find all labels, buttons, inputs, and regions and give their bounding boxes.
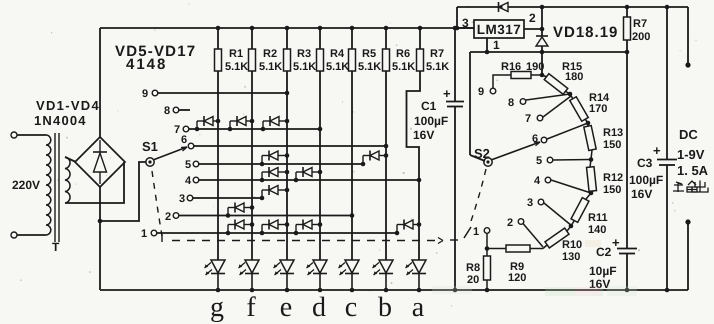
wire VIN corner vertical bbox=[456, 7, 458, 28]
resistor R16 bbox=[511, 72, 531, 79]
svg-text:100µF: 100µF bbox=[629, 173, 663, 187]
switch S2 contact 4 bbox=[545, 177, 551, 183]
diode VD7 (row7-e) bbox=[261, 127, 266, 132]
gang link arrowhead bbox=[438, 238, 443, 244]
LED c bbox=[345, 260, 359, 273]
svg-text:5.1K: 5.1K bbox=[259, 61, 282, 73]
switch S2 contact 9 bbox=[490, 88, 496, 94]
svg-text:7: 7 bbox=[174, 124, 180, 136]
svg-text:8: 8 bbox=[508, 97, 514, 109]
wire ADJ line bbox=[470, 51, 627, 53]
resistor R13 bbox=[584, 125, 596, 150]
svg-text:e: e bbox=[280, 292, 292, 323]
node top rail column 4 bbox=[318, 26, 323, 31]
resistor R10 bbox=[545, 228, 569, 248]
svg-text:5.1K: 5.1K bbox=[326, 61, 349, 73]
wire tap 6 bbox=[547, 123, 588, 139]
svg-text:200: 200 bbox=[632, 31, 650, 43]
svg-text:+: + bbox=[653, 143, 661, 158]
switch S2 wiper arm bbox=[491, 142, 540, 160]
svg-text:S1: S1 bbox=[142, 139, 158, 154]
bridge inner diode lead top bbox=[99, 140, 101, 152]
wire tap 2 bbox=[523, 224, 543, 248]
node R7 top rail junction bbox=[625, 5, 630, 10]
wire LM317 pin3 bbox=[457, 27, 474, 29]
transformer T secondary winding bbox=[65, 157, 70, 203]
svg-text:C3: C3 bbox=[637, 156, 653, 170]
svg-text:3: 3 bbox=[527, 197, 533, 209]
svg-text:4: 4 bbox=[185, 175, 192, 187]
node R8 bottom bbox=[485, 288, 490, 293]
node chain n4 bbox=[589, 191, 594, 196]
node top rail column 1 bbox=[216, 26, 221, 31]
wire row 7 bbox=[189, 128, 320, 130]
wire segment column d bbox=[319, 71, 321, 260]
svg-text:a: a bbox=[412, 292, 425, 323]
wire top rail (VIN) left section y=28 bbox=[100, 27, 474, 29]
wire n5-R10 bbox=[567, 226, 571, 231]
svg-text:c: c bbox=[345, 292, 357, 323]
wire S1 common to bridge bbox=[100, 162, 146, 221]
LED a bbox=[412, 260, 426, 273]
terminal output minus bbox=[685, 219, 690, 224]
wire row 5 bbox=[199, 163, 363, 165]
switch S1 contact 6 bbox=[188, 143, 194, 149]
svg-text:C2: C2 bbox=[596, 245, 612, 259]
wire top rail left of VD18 bbox=[457, 6, 499, 8]
LED d bbox=[313, 260, 327, 273]
node VD19 top rail junction bbox=[540, 5, 545, 10]
svg-text:1. 5A: 1. 5A bbox=[677, 163, 709, 178]
svg-text:g: g bbox=[210, 292, 224, 323]
transformer core line 2 bbox=[58, 133, 60, 242]
resistor R7 bbox=[417, 49, 424, 71]
wire R1 top lead bbox=[217, 28, 219, 49]
svg-text:7: 7 bbox=[525, 113, 531, 125]
switch S2 contact 3 bbox=[538, 199, 544, 205]
wire segment column a jog bbox=[407, 71, 421, 260]
switch S1 contact 2 bbox=[173, 213, 179, 219]
node bridge negative junction bbox=[98, 219, 103, 224]
wire R8 bottom lead bbox=[486, 280, 488, 290]
svg-text:150: 150 bbox=[603, 184, 621, 196]
switch S2 pivot bbox=[484, 158, 492, 166]
svg-text:S2: S2 bbox=[474, 146, 490, 161]
svg-text:5: 5 bbox=[185, 159, 191, 171]
node C3 bottom bbox=[665, 288, 670, 293]
wire S2 pivot diagonal bbox=[470, 155, 485, 161]
node row7-d junction bbox=[318, 127, 323, 132]
switch S1 contact 4 bbox=[193, 177, 199, 183]
wire R7(200) top lead bbox=[626, 7, 628, 17]
capacitor C1 plates bbox=[446, 101, 464, 103]
wire R13-n3 bbox=[591, 150, 592, 160]
svg-text:16V: 16V bbox=[631, 187, 652, 201]
wire C3 top lead bbox=[666, 7, 668, 159]
resistor R14 bbox=[570, 97, 588, 122]
svg-text:5: 5 bbox=[536, 155, 542, 167]
resistor R7 (200) bbox=[624, 17, 631, 40]
switch S2 wiper dashed arc bbox=[470, 169, 486, 224]
node chain n2 bbox=[586, 121, 591, 126]
wire R9 left lead bbox=[487, 248, 506, 250]
svg-text:LM317: LM317 bbox=[477, 22, 522, 37]
wire secondary bottom run bbox=[65, 162, 124, 203]
diode VD8 (row5-e) bbox=[260, 162, 265, 167]
wire tap 4 bbox=[551, 180, 591, 193]
wire VD19 bottom lead bbox=[541, 46, 543, 75]
switch S2 contact 2 bbox=[518, 219, 524, 225]
resistor R11 bbox=[571, 198, 589, 223]
resistor R5 bbox=[349, 49, 356, 71]
svg-text:T: T bbox=[52, 240, 60, 254]
svg-text:4148: 4148 bbox=[126, 56, 167, 73]
svg-text:R7: R7 bbox=[430, 48, 444, 60]
wire tap 8 bbox=[526, 94, 570, 100]
node chain n5 bbox=[569, 224, 574, 229]
wire row 2 bbox=[179, 215, 352, 217]
diode VD14 (row1-f) bbox=[226, 231, 231, 236]
wire C2 bottom lead bbox=[626, 254, 628, 290]
resistor R1 bbox=[215, 49, 222, 71]
svg-text:+: + bbox=[612, 235, 620, 250]
switch S1 contact 9 bbox=[152, 90, 158, 96]
wire ADJ to C2 bbox=[626, 52, 628, 248]
wire row 1 bbox=[157, 232, 397, 234]
svg-text:R6: R6 bbox=[396, 48, 410, 60]
diode VD17 (row1-a) bbox=[395, 231, 400, 236]
node top rail column 2 bbox=[250, 26, 255, 31]
wire R7(200) bottom lead bbox=[626, 40, 628, 52]
wire left edge lower (bridge bottom to bottom rail) bbox=[99, 187, 101, 290]
wire output plus drop bbox=[687, 7, 689, 65]
svg-text:R13: R13 bbox=[603, 127, 623, 139]
svg-text:R7: R7 bbox=[633, 18, 647, 30]
switch S1 wiper arm bbox=[153, 147, 187, 160]
switch S2 contact 5 bbox=[547, 157, 553, 163]
svg-text:R8: R8 bbox=[466, 262, 480, 274]
svg-text:130: 130 bbox=[562, 251, 580, 263]
resistor R2 bbox=[249, 49, 256, 71]
wire R2 top lead bbox=[251, 28, 253, 49]
diode VD13 (row2-f) bbox=[226, 213, 231, 218]
wire output minus riser bbox=[687, 222, 689, 290]
wire R8 top lead bbox=[486, 249, 488, 257]
LED b bbox=[379, 260, 393, 273]
diode VD5 (row7-g) bbox=[195, 127, 200, 132]
wire segment column g bbox=[217, 71, 219, 260]
LED e bbox=[280, 260, 294, 273]
svg-text:1: 1 bbox=[493, 38, 500, 52]
svg-text:120: 120 bbox=[508, 272, 526, 284]
switch S2 contact 1 bbox=[484, 228, 490, 234]
wire row 9 bbox=[158, 92, 287, 94]
wire n2-R13 bbox=[587, 123, 589, 126]
svg-text:1N4004: 1N4004 bbox=[34, 113, 87, 128]
diode VD11 (row4-d) bbox=[294, 178, 299, 183]
bridge inner diode cathode bar bbox=[93, 151, 107, 153]
svg-text:d: d bbox=[312, 292, 326, 323]
wire row 6 bbox=[194, 145, 386, 147]
svg-text:9: 9 bbox=[478, 86, 484, 98]
wire AC bottom lead bbox=[17, 234, 46, 236]
resistor R15 bbox=[544, 74, 568, 95]
switch S1 contact 7 bbox=[183, 126, 189, 132]
svg-text:DC: DC bbox=[679, 127, 698, 142]
wire n3-R12 bbox=[590, 160, 591, 168]
node VD19 ADJ junction bbox=[540, 50, 545, 55]
LED g bbox=[211, 260, 225, 273]
switch S1 wiper dashed arc bbox=[152, 171, 162, 236]
svg-text:3: 3 bbox=[179, 193, 185, 205]
svg-text:R16: R16 bbox=[501, 61, 521, 73]
LED f bbox=[245, 260, 259, 273]
resistor R12 bbox=[587, 167, 597, 192]
svg-text:VD18.19: VD18.19 bbox=[553, 24, 618, 41]
svg-text:R1: R1 bbox=[229, 48, 243, 60]
wire R6 top lead bbox=[385, 28, 387, 49]
node pin2 junction bbox=[540, 27, 545, 32]
wire segment column c bbox=[351, 71, 353, 260]
svg-text:+: + bbox=[443, 86, 451, 101]
svg-text:R4: R4 bbox=[330, 48, 345, 60]
svg-text:b: b bbox=[378, 292, 392, 323]
resistor R8 bbox=[484, 256, 491, 280]
svg-text:9: 9 bbox=[142, 88, 148, 100]
wire n0-R15 bbox=[542, 75, 547, 77]
svg-text:190: 190 bbox=[526, 61, 544, 73]
node R8 top bbox=[485, 246, 490, 251]
wire contact1 drop bbox=[486, 233, 488, 249]
wire row 8 stub bbox=[179, 109, 190, 111]
resistor R9 bbox=[506, 245, 530, 252]
node chain n1 bbox=[568, 92, 573, 97]
wire left edge upper (frame to bridge top) bbox=[99, 28, 101, 137]
wire R11-n5 bbox=[571, 221, 574, 226]
node C1 top bbox=[453, 26, 458, 31]
switch S1 contact 5 bbox=[193, 161, 199, 167]
node R7 ADJ junction bbox=[625, 50, 630, 55]
wire R4 top lead bbox=[319, 28, 321, 49]
svg-text:2: 2 bbox=[507, 217, 513, 229]
svg-text:1-9V: 1-9V bbox=[677, 147, 705, 162]
svg-text:6: 6 bbox=[532, 133, 538, 145]
wire segment column f bbox=[251, 71, 253, 260]
switch S1 contact 3 bbox=[187, 195, 193, 201]
svg-text:5.1K: 5.1K bbox=[293, 61, 316, 73]
svg-text:R3: R3 bbox=[297, 48, 311, 60]
wire C1 bottom lead bbox=[454, 107, 456, 290]
wire row 4 bbox=[199, 179, 419, 181]
watermark bbox=[432, 240, 637, 296]
svg-text:1: 1 bbox=[473, 226, 479, 238]
svg-text:2: 2 bbox=[165, 211, 171, 223]
svg-text:150: 150 bbox=[603, 139, 621, 151]
svg-text:1: 1 bbox=[141, 228, 147, 240]
svg-text:R2: R2 bbox=[263, 48, 277, 60]
svg-text:R11: R11 bbox=[588, 212, 608, 224]
switch S2 contact 7 bbox=[537, 115, 543, 121]
node ADJ chain top bbox=[540, 73, 545, 78]
wire R15-n1 bbox=[565, 91, 570, 94]
wire n1-R14 bbox=[570, 94, 573, 99]
switch S1 pivot bbox=[146, 158, 154, 166]
switch S2 contact 8 bbox=[520, 99, 526, 105]
wire n4-R11 bbox=[586, 193, 591, 199]
svg-text:180: 180 bbox=[565, 71, 583, 83]
wire R12-n4 bbox=[591, 191, 593, 193]
wire row1 tick down bbox=[161, 233, 163, 242]
svg-text:16V: 16V bbox=[413, 128, 434, 142]
svg-text:R12: R12 bbox=[603, 172, 623, 184]
node row9-e junction bbox=[285, 91, 290, 96]
svg-text:170: 170 bbox=[589, 103, 607, 115]
wire tap 5 bbox=[553, 159, 591, 162]
node chain n3 bbox=[589, 157, 594, 162]
wire bottom rail bbox=[100, 289, 688, 291]
bridge rectifier VD1-VD4 diamond bbox=[75, 137, 125, 187]
wire row 3 bbox=[193, 197, 262, 199]
svg-text:5.1K: 5.1K bbox=[392, 61, 415, 73]
wire R3 top lead bbox=[286, 28, 288, 49]
svg-text:VD1-VD4: VD1-VD4 bbox=[36, 98, 100, 113]
switch S2 wiper slash bbox=[464, 227, 471, 238]
capacitor C2 plates bbox=[617, 248, 637, 250]
terminal AC input top bbox=[11, 132, 17, 138]
svg-text:10µF: 10µF bbox=[589, 264, 617, 278]
resistor R6 bbox=[383, 49, 390, 71]
svg-text:20: 20 bbox=[467, 274, 479, 286]
resistor R3 bbox=[284, 49, 291, 71]
svg-text:R5: R5 bbox=[362, 48, 376, 60]
diode VD6 (row7-f) bbox=[228, 127, 233, 132]
diode VD16 (row1-d) bbox=[294, 231, 299, 236]
node row6-b junction bbox=[384, 144, 389, 149]
wire C3 bottom lead bbox=[666, 165, 668, 290]
svg-text:f: f bbox=[246, 292, 256, 323]
switch S1 contact 8 bbox=[173, 107, 179, 113]
node row4-a junction bbox=[417, 178, 422, 183]
bridge inner diode lead bottom bbox=[99, 172, 101, 184]
wire pin2 riser bbox=[541, 7, 543, 36]
wire segment column e bbox=[286, 71, 288, 260]
svg-text:5.1K: 5.1K bbox=[225, 61, 248, 73]
node pin1 junction bbox=[485, 50, 490, 55]
wire secondary top to bridge left corner bbox=[65, 157, 76, 162]
dashed gang coupling line bbox=[172, 240, 436, 242]
wire R9 right lead bbox=[530, 248, 543, 250]
wire R7 top lead bbox=[419, 28, 421, 49]
svg-text:6: 6 bbox=[181, 134, 187, 146]
transformer core line 1 bbox=[54, 133, 56, 242]
wire C1 top lead bbox=[454, 28, 456, 101]
wire LM317 pin1 bbox=[486, 38, 488, 52]
svg-text:2: 2 bbox=[529, 11, 536, 25]
node C3 top rail junction bbox=[665, 5, 670, 10]
svg-text:5.1K: 5.1K bbox=[426, 61, 449, 73]
svg-text:220V: 220V bbox=[12, 178, 40, 192]
wire R16 to node bbox=[531, 74, 542, 76]
node C2 bottom bbox=[625, 288, 630, 293]
resistor R4 bbox=[317, 49, 324, 71]
wire top rail right of VD18 bbox=[508, 6, 688, 8]
diode VD12 (row3-e) bbox=[260, 196, 265, 201]
svg-text:100µF: 100µF bbox=[414, 114, 448, 128]
svg-text:4: 4 bbox=[534, 175, 541, 187]
svg-text:5.1K: 5.1K bbox=[358, 61, 381, 73]
wire R14-n2 bbox=[585, 119, 588, 123]
svg-text:140: 140 bbox=[588, 224, 606, 236]
wire tap 3 bbox=[544, 203, 572, 226]
wire R10-R9 bbox=[543, 245, 547, 249]
svg-text:R10: R10 bbox=[562, 239, 582, 251]
svg-text:C1: C1 bbox=[421, 99, 437, 113]
bridge inner diode triangle bbox=[94, 153, 107, 172]
switch S1 contact 1 bbox=[151, 230, 157, 236]
svg-text:8: 8 bbox=[164, 105, 170, 117]
node top rail column 6 bbox=[384, 26, 389, 31]
terminal AC input bottom bbox=[11, 232, 17, 238]
wire S2 box left edge bbox=[469, 52, 471, 155]
transformer T primary winding bbox=[46, 135, 51, 235]
diode VD18 bbox=[498, 2, 500, 12]
node top rail column 7 bbox=[418, 26, 423, 31]
diode VD19 bbox=[536, 35, 548, 37]
wire segment column b bbox=[385, 71, 387, 260]
node row2-c junction bbox=[350, 213, 355, 218]
wire AC top lead bbox=[17, 134, 46, 136]
wire tap 7 bbox=[543, 96, 571, 117]
switch S2 contact 6 bbox=[541, 137, 547, 143]
wire R5 top lead bbox=[351, 28, 353, 49]
node VIN corner bbox=[455, 26, 460, 31]
terminal output plus bbox=[685, 62, 690, 67]
node C1 bottom bbox=[453, 288, 458, 293]
node top rail column 3 bbox=[285, 26, 290, 31]
diode VD9 (row5-b) bbox=[361, 162, 366, 167]
wire S2 contact9 to R16 bbox=[493, 75, 511, 88]
wire LM317 pin2 bbox=[524, 28, 542, 30]
op-amp U1 LM317 box bbox=[474, 20, 524, 38]
capacitor C3 plates bbox=[657, 159, 677, 161]
label shuchu (output) bbox=[673, 181, 697, 192]
node top rail column 5 bbox=[350, 26, 355, 31]
diode VD15 (row1-e) bbox=[260, 231, 265, 236]
diode VD10 (row4-e) bbox=[260, 178, 265, 183]
